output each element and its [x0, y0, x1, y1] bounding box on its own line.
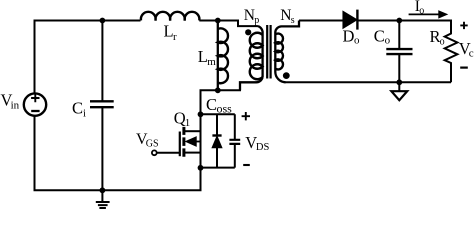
svg-text:r: r: [173, 31, 177, 43]
snubber box top rail: [201, 113, 235, 115]
capacitor Ci: [101, 21, 103, 191]
svg-text:s: s: [291, 15, 295, 26]
svg-text:D: D: [343, 26, 355, 45]
transformer core: [267, 25, 270, 79]
current arrow Io: [409, 13, 440, 15]
body diode of Q1: [216, 114, 218, 136]
svg-text:o: o: [385, 35, 391, 47]
svg-text:o: o: [440, 37, 445, 48]
wire left vertical top: [34, 20, 36, 94]
svg-text:in: in: [11, 100, 20, 112]
minus sign VDS: [243, 164, 250, 166]
MOSFET Q1 gate bar: [179, 132, 181, 157]
inductor Lr: [141, 12, 200, 21]
diode Do: [343, 12, 356, 28]
wire left vertical bottom: [34, 116, 36, 191]
wire diode to corner: [358, 20, 451, 22]
junction node Ci bottom / ground: [100, 187, 106, 193]
wire bottom rail primary: [34, 168, 201, 191]
MOSFET Q1 source stub: [185, 152, 201, 154]
svg-text:DS: DS: [256, 142, 270, 153]
junction node Co bottom: [396, 79, 402, 85]
minus sign Vc: [460, 66, 468, 68]
svg-text:1: 1: [185, 117, 191, 129]
svg-text:GS: GS: [146, 139, 159, 150]
plus sign VDS: [242, 112, 250, 120]
MOSFET Q1 gate wire: [157, 152, 180, 154]
wire drain rail: [201, 90, 242, 167]
junction node Lm top: [215, 18, 221, 24]
svg-text:o: o: [354, 35, 360, 47]
resistor Ro: [445, 20, 458, 83]
svg-text:c: c: [469, 47, 474, 59]
MOSFET Q1 body arrow: [196, 141, 201, 143]
junction node drain tap: [198, 111, 204, 117]
capacitor Coss: [234, 114, 236, 167]
ground (secondary, open triangle): [398, 82, 400, 91]
polarity dot Np: [245, 29, 251, 35]
MOSFET Q1 gate terminal circle: [152, 150, 157, 155]
junction node Co top: [396, 18, 402, 24]
voltage source Vin: [24, 93, 46, 115]
MOSFET Q1 drain stub: [185, 130, 201, 132]
wire Lr to node: [199, 21, 258, 27]
svg-text:C: C: [206, 95, 217, 114]
svg-text:o: o: [419, 5, 424, 16]
transformer primary Np: [258, 26, 263, 77]
wire secondary bottom: [285, 81, 452, 83]
svg-text:i: i: [83, 108, 86, 120]
junction node source tap: [198, 165, 204, 171]
svg-text:m: m: [207, 56, 216, 68]
svg-text:oss: oss: [217, 101, 233, 115]
MOSFET Q1 channel dashes: [182, 127, 185, 157]
ground (primary): [101, 190, 103, 201]
transformer secondary Ns: [275, 21, 299, 73]
wire secondary top: [299, 20, 344, 22]
polarity dot Ns: [283, 72, 290, 79]
svg-text:C: C: [374, 26, 385, 45]
inductor Lm: [217, 21, 219, 91]
svg-text:p: p: [254, 15, 259, 26]
plus sign Vc: [460, 22, 467, 29]
wire top rail primary: [35, 20, 141, 22]
capacitor Co: [398, 21, 400, 83]
junction node Lm bottom: [215, 87, 221, 93]
svg-text:C: C: [72, 98, 83, 117]
snubber box bottom rail: [201, 167, 235, 169]
junction node Ci top: [100, 18, 106, 24]
